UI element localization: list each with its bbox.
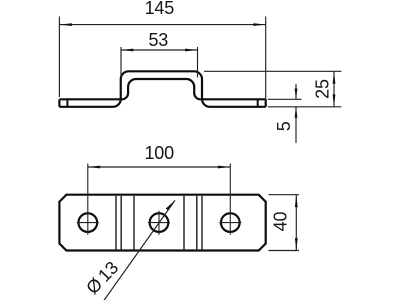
dimension 145 arrow right (253, 23, 265, 26)
dimension 53 extension line right (197, 47, 199, 78)
hole middle crosshair vertical (158, 211, 160, 235)
dimension 25 arrow bottom (333, 94, 336, 106)
svg-text:100: 100 (144, 143, 174, 163)
dimension 145 arrow left (59, 23, 71, 26)
dimension 25 extension line bottom (268, 106, 342, 108)
svg-text:40: 40 (271, 212, 291, 232)
dimension 100 arrow left (88, 166, 100, 169)
plan view bend line 6 (201, 196, 203, 250)
dimension 100 extension line right (through right hole) (229, 164, 231, 235)
dimension 40 line (295, 195, 297, 251)
side view right end cap (265, 99, 267, 107)
dimension 145 extension line left (58, 17, 60, 98)
dimension 5 lower arrow line (295, 107, 297, 143)
plan view bend line 5 (196, 196, 198, 250)
svg-text:25: 25 (312, 79, 332, 99)
dimension 5 extension line top (268, 98, 302, 100)
dimension 25 arrow top (333, 71, 336, 83)
hole right crosshair horizontal (219, 222, 241, 224)
dimension 5 arrow down (295, 89, 298, 100)
side view left end cap (58, 99, 60, 107)
side view right chamfer mark (257, 99, 259, 107)
hole left crosshair horizontal (77, 222, 99, 224)
dimension 40 extension line top (269, 194, 300, 196)
svg-text:5: 5 (274, 121, 294, 131)
plan view bend line 2 (120, 196, 122, 250)
dimension 100 extension line left (through left hole) (87, 164, 89, 235)
side view inner contour (59, 79, 265, 99)
dimension 100 line (88, 166, 231, 168)
dimension 40 arrow top (295, 195, 298, 207)
svg-text:145: 145 (145, 0, 175, 18)
side view left chamfer mark (66, 99, 68, 107)
dimension 53 arrow right (185, 49, 197, 52)
plan view outline (59, 195, 265, 251)
hole middle crosshair horizontal (148, 222, 170, 224)
plan view bend line 3 (133, 196, 135, 250)
dimension 25 line (333, 71, 335, 107)
dimension 53 line (121, 49, 198, 51)
diameter leader arrow (166, 200, 175, 210)
svg-text:53: 53 (148, 30, 168, 50)
dimension 25 extension line top (204, 70, 341, 72)
hole middle circle (150, 213, 169, 232)
hole left circle (78, 213, 97, 232)
dimension 100 arrow right (218, 166, 230, 169)
dimension 5 arrow up (295, 107, 298, 118)
dimension 53 extension line left (120, 47, 122, 78)
diameter leader line (104, 200, 176, 300)
dimension 5 upper arrow line (295, 84, 297, 99)
dimension 40 arrow bottom (295, 238, 298, 250)
plan view bend line 4 (183, 196, 185, 250)
dimension 145 extension line right (265, 17, 267, 102)
dimension 53 arrow left (121, 49, 133, 52)
plan view bend line 1 (115, 196, 117, 250)
dimension 145 line (59, 24, 265, 26)
side view outer contour (59, 71, 265, 107)
dimension 40 extension line bottom (269, 250, 300, 252)
hole right circle (221, 213, 240, 232)
